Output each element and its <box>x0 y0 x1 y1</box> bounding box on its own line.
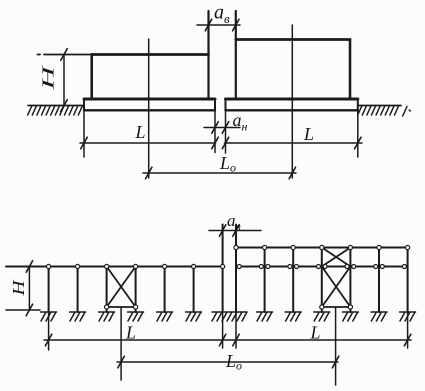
dimension L left line <box>80 142 216 144</box>
extension below first left column <box>48 312 50 350</box>
svg-text:L: L <box>135 122 146 142</box>
a_v tick left <box>205 19 211 31</box>
base support col 77.6 <box>70 312 86 321</box>
extension below left brace bay center <box>120 307 122 380</box>
base support col 379 <box>371 312 387 321</box>
extension below right joint column <box>235 313 237 348</box>
base support col 135.6 <box>128 312 144 321</box>
dimension L right line <box>224 142 362 144</box>
L0 bottom tick left <box>118 356 124 368</box>
base support col 264.6 <box>257 312 273 321</box>
svg-text:aв: aв <box>214 2 230 27</box>
ground line right trailing dash and dot <box>403 107 411 117</box>
L row tick 4 <box>404 334 410 346</box>
left building left wall <box>90 55 93 100</box>
shared base support at joint <box>212 312 247 321</box>
right building top edge <box>236 38 350 41</box>
base support col 164.6 <box>157 312 173 321</box>
a_v tick right <box>233 19 239 31</box>
ground line left <box>28 105 84 107</box>
right frame lower chord <box>236 266 408 268</box>
left brace diagonal 2 <box>107 267 136 308</box>
ground hatch right <box>358 106 399 116</box>
extension below left slab left edge <box>83 110 85 157</box>
svg-text:Lo: Lo <box>219 153 236 175</box>
svg-text:H: H <box>38 63 57 91</box>
dimension H tick top <box>61 49 67 61</box>
bottom dimension line L0 <box>117 361 338 363</box>
hinge circles brace bay bottoms <box>105 305 109 309</box>
base support col 321.8 <box>314 312 330 321</box>
dimension L0 (top) line <box>143 172 296 174</box>
L left tick at 215 <box>212 137 218 149</box>
left frame top chord with H extension <box>6 266 223 268</box>
hinge circles right lower chord (paired at columns) <box>237 265 241 269</box>
dimension H (bottom) line <box>28 267 30 311</box>
L0 tick left <box>146 167 152 179</box>
extension below last right column <box>407 313 409 348</box>
column base supports <box>41 312 416 321</box>
dimension a_n line <box>204 127 240 129</box>
right joint column with a_v extension <box>235 225 237 313</box>
ground line right <box>358 105 401 107</box>
L0 bottom tick right <box>332 356 338 368</box>
L row tick 2 <box>219 334 225 346</box>
bottom dimension line L row <box>44 339 411 341</box>
right brace bay bottom line <box>322 306 351 308</box>
extension below left joint column <box>222 313 224 348</box>
svg-text:L: L <box>125 323 136 343</box>
dimension a_v (top) line <box>197 24 240 26</box>
right building left wall with extension up to a_v dim <box>235 11 237 99</box>
dimension H (top) line <box>63 55 65 106</box>
right building axis line <box>291 25 293 178</box>
H bottom tick bottom <box>26 304 32 316</box>
left brace bay bottom line <box>107 306 136 308</box>
L row tick 1 <box>45 334 51 346</box>
base support col 293.2 <box>285 312 301 321</box>
H bottom tick top <box>26 261 32 273</box>
extension below left slab right edge <box>214 110 216 152</box>
right frame columns <box>265 248 408 313</box>
dimension H tick bottom <box>61 100 67 112</box>
extension below right slab right edge <box>357 110 359 157</box>
svg-text:aн: aн <box>233 110 248 134</box>
base support col 106.6 <box>99 312 115 321</box>
svg-text:H: H <box>9 278 28 296</box>
L left tick at 84 <box>81 137 87 149</box>
right brace upper X <box>322 248 351 267</box>
a_v bottom tick right <box>233 225 239 237</box>
right brace lower X <box>322 267 351 308</box>
svg-text:Lo: Lo <box>225 351 242 373</box>
base support col 350.4 <box>342 312 358 321</box>
right foundation slab <box>226 98 358 101</box>
a_n tick left <box>212 122 218 134</box>
a_n tick right <box>222 122 228 134</box>
left foundation slab <box>84 98 215 101</box>
base support col 48.6 <box>41 312 57 321</box>
left frame columns <box>49 267 194 313</box>
right building right wall <box>349 40 352 100</box>
hinge circles left chord <box>47 264 51 268</box>
hinge circles <box>47 245 410 309</box>
dimension a_v (bottom) line <box>209 230 261 232</box>
left building right wall with extension up to a_v dim <box>207 11 209 99</box>
base support col 407.6 <box>400 312 416 321</box>
extension below right slab left edge <box>225 110 227 153</box>
left building top edge with H extension <box>38 54 92 56</box>
a_v bottom tick left <box>219 225 225 237</box>
L row tick 3 <box>233 334 239 346</box>
left joint column with a_v extension <box>222 225 224 313</box>
L right tick at 225.5 <box>222 137 228 149</box>
left brace diagonal 1 <box>107 267 136 308</box>
ground hatch left <box>28 106 83 116</box>
left building axis line <box>148 39 150 178</box>
L0 tick right <box>289 167 295 179</box>
bottom H extension line <box>6 309 40 311</box>
hinge circles right upper chord <box>234 245 238 249</box>
svg-text:L: L <box>303 124 314 144</box>
L right tick at 357.8 <box>355 137 361 149</box>
right frame upper chord <box>236 247 408 249</box>
base support col 193.6 <box>186 312 202 321</box>
extension below right brace bay center <box>335 307 337 385</box>
svg-text:L: L <box>310 323 321 343</box>
